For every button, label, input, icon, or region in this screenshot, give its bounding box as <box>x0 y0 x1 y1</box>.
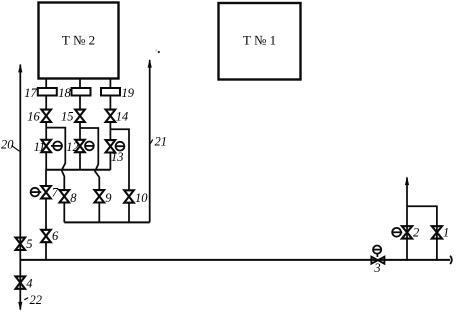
svg-text:9: 9 <box>105 191 112 205</box>
speck dots <box>156 50 160 54</box>
wire valve12 to header <box>79 152 81 170</box>
label 21 <box>150 135 167 149</box>
svg-text:Т № 2: Т № 2 <box>62 33 95 48</box>
wire valve14 to valve13 <box>109 122 111 140</box>
wire line 20 riser <box>19 65 21 310</box>
flange 17 <box>24 86 57 100</box>
gauge at valve 12 <box>85 142 94 151</box>
svg-text:17: 17 <box>24 86 37 100</box>
svg-text:8: 8 <box>70 191 77 205</box>
valve 2 <box>402 226 419 240</box>
valve 10 <box>124 190 148 205</box>
svg-text:12: 12 <box>66 140 79 154</box>
svg-text:15: 15 <box>61 110 74 124</box>
wire valve10 to lower header <box>128 203 130 223</box>
valve 16 <box>27 110 51 124</box>
arrow line 21 <box>148 59 152 68</box>
wire header to valve7 <box>45 170 47 186</box>
valve 3 <box>371 257 384 275</box>
valve 13 <box>106 140 124 164</box>
gauge at valve 7 <box>31 188 42 197</box>
svg-text:21: 21 <box>155 135 168 149</box>
svg-text:13: 13 <box>111 150 124 164</box>
wire bypass branch 2 <box>80 128 99 190</box>
wire valve6 to main bottom line <box>45 242 47 260</box>
valve 9 <box>95 190 113 205</box>
wire stub from T2 to flange 19 <box>109 79 111 89</box>
svg-text:Т № 1: Т № 1 <box>243 33 276 48</box>
tank T2 <box>39 3 119 79</box>
gauge at valve 2 <box>392 228 402 237</box>
valve 8 <box>60 190 78 205</box>
wire line 21 riser <box>149 60 151 222</box>
label 22 <box>24 293 42 307</box>
flange 18 <box>58 86 90 100</box>
valve 1 <box>432 226 449 240</box>
svg-text:18: 18 <box>58 86 71 100</box>
svg-text:19: 19 <box>122 86 135 100</box>
svg-text:10: 10 <box>135 191 148 205</box>
svg-text:7: 7 <box>52 186 59 200</box>
valve 12 <box>66 140 85 154</box>
pipe end cap <box>450 256 452 264</box>
wire valve9 to lower header <box>98 203 100 223</box>
svg-text:14: 14 <box>116 110 129 124</box>
svg-text:16: 16 <box>27 110 40 124</box>
valve 11 <box>34 140 51 154</box>
gauge at valve 11 <box>51 142 62 151</box>
wire branch to valve 1 <box>407 206 437 260</box>
wire flange19 to valve14 <box>109 96 111 111</box>
flange 19 <box>101 86 135 100</box>
wire main bottom line <box>20 259 450 261</box>
arrow right riser <box>405 176 409 185</box>
wire valve16 to valve11 <box>45 122 47 140</box>
valve 5 <box>16 237 33 251</box>
svg-text:4: 4 <box>26 277 32 291</box>
svg-text:2: 2 <box>413 226 419 240</box>
wire right riser <box>406 178 408 260</box>
label 20 <box>1 138 19 152</box>
svg-text:11: 11 <box>34 140 46 154</box>
valve 14 <box>106 110 129 124</box>
wire valve7 to valve6 <box>45 198 47 229</box>
gauge at valve 13 <box>115 142 124 151</box>
wire collecting header <box>45 169 110 171</box>
arrow line 20 bottom outlet <box>18 302 22 311</box>
wire valve8 to lower header <box>63 203 65 223</box>
wire stub from T2 to flange 17 <box>45 79 47 89</box>
wire lower header <box>64 221 149 223</box>
gauge at valve 3 <box>373 246 381 258</box>
svg-text:1: 1 <box>443 226 449 240</box>
valve 4 <box>16 276 33 290</box>
valve 15 <box>61 110 85 124</box>
wire valve15 to valve12 <box>79 122 81 140</box>
svg-text:5: 5 <box>26 237 32 251</box>
svg-text:20: 20 <box>1 138 14 152</box>
svg-text:6: 6 <box>52 229 59 243</box>
wire valve13 to header <box>109 153 111 170</box>
wire bypass branch 1 <box>46 128 65 191</box>
wire bypass branch 3 <box>110 129 129 190</box>
valve 7 <box>41 186 59 200</box>
tank T1 <box>219 3 301 80</box>
wire valve11 to header <box>45 152 47 170</box>
svg-text:3: 3 <box>373 261 380 275</box>
valve 6 <box>41 229 59 243</box>
arrow line 20 top <box>18 64 22 73</box>
wire stub from T2 to flange 18 <box>79 79 81 89</box>
svg-text:22: 22 <box>30 293 43 307</box>
wire flange17 to valve16 <box>45 96 47 111</box>
wire flange18 to valve15 <box>79 96 81 111</box>
